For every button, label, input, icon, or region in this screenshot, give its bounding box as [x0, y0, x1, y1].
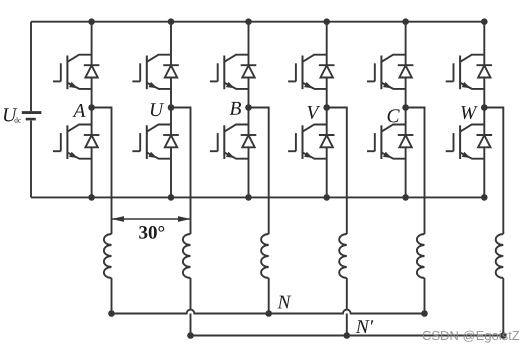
wire: leg C vertical rail [405, 22, 407, 198]
IGBT Q12: leg W lower switch [446, 125, 485, 160]
IGBT Q10: leg C lower switch [367, 125, 406, 160]
IGBT Q4: leg U lower switch [132, 125, 171, 160]
diode D5: leg B upper freewheeling [241, 65, 257, 77]
IGBT Q3: leg U upper switch [132, 55, 171, 89]
wire: phase A output tap [92, 108, 112, 235]
label Udc (DC source voltage) [4, 108, 21, 122]
wire: phase U winding to neutral [190, 278, 192, 336]
wire: negative DC bus [31, 196, 484, 198]
junction: phase A on N [108, 310, 115, 317]
label 30 degrees [139, 226, 164, 239]
diode D1: leg A upper freewheeling [84, 65, 100, 77]
junction: leg B on positive bus [245, 18, 252, 25]
diode D7: leg V upper freewheeling [319, 65, 335, 77]
junction: leg C on negative bus [402, 194, 409, 201]
wire: neutral bus N' (phases U,V,W) [191, 335, 504, 337]
junction: leg V on positive bus [323, 18, 330, 25]
diode D9: leg C upper freewheeling [398, 65, 414, 77]
IGBT Q9: leg C upper switch [367, 55, 406, 89]
dimension arrow: 30 deg phase shift [112, 216, 191, 222]
junction: leg W on positive bus [481, 18, 488, 25]
IGBT Q7: leg V upper switch [288, 55, 327, 89]
label node A [72, 104, 85, 117]
wire: left DC link, lower segment [30, 121, 32, 198]
label node V [308, 106, 321, 119]
wire: neutral bus N (phases A,B,C) with hops over U,V taps [112, 310, 425, 314]
inductor LA: phase A winding [104, 234, 112, 278]
wire: phase C output tap [406, 108, 425, 235]
junction: leg B on negative bus [245, 194, 252, 201]
junction: leg V on negative bus [323, 194, 330, 201]
diode D6: leg B lower freewheeling [241, 135, 257, 147]
label node W [461, 106, 477, 119]
node C (phase midpoint) [402, 104, 409, 111]
junction: leg U on positive bus [168, 18, 175, 25]
wire: leg B vertical rail [248, 22, 250, 198]
battery Udc positive plate [22, 111, 42, 114]
wire: leg A vertical rail [91, 22, 93, 198]
junction: leg C on positive bus [402, 18, 409, 25]
wire: phase V winding to neutral [346, 278, 348, 336]
junction: leg A on negative bus [88, 194, 95, 201]
wire: phase A winding to neutral [111, 278, 113, 314]
node V (phase midpoint) [323, 104, 330, 111]
diode D3: leg U upper freewheeling [163, 65, 179, 77]
junction: phase V on N' [344, 332, 351, 339]
inductor LC: phase C winding [417, 234, 425, 278]
node W (phase midpoint) [481, 104, 488, 111]
inductor LB: phase B winding [261, 234, 269, 278]
wire: phase V output tap [327, 108, 347, 235]
diode D12: leg W lower freewheeling [477, 135, 493, 147]
battery Udc negative plate [26, 118, 36, 121]
wire: phase W winding to neutral [502, 278, 504, 336]
wire: positive DC bus [31, 21, 484, 23]
junction: phase U on N' [187, 332, 194, 339]
IGBT Q8: leg V lower switch [288, 125, 327, 160]
IGBT Q5: leg B upper switch [210, 55, 249, 89]
watermark CSDN [423, 331, 520, 343]
junction: phase B on N [265, 310, 272, 317]
inductor LW: phase W winding [496, 234, 504, 278]
node B (phase midpoint) [245, 104, 252, 111]
IGBT Q11: leg W upper switch [446, 55, 485, 89]
label node C [388, 109, 400, 122]
label node B [230, 102, 241, 115]
IGBT Q2: leg A lower switch [53, 125, 92, 160]
inductor LU: phase U winding [183, 234, 191, 278]
diode D11: leg W upper freewheeling [477, 65, 493, 77]
junction: leg W on negative bus [481, 194, 488, 201]
diode D8: leg V lower freewheeling [319, 135, 335, 147]
wire: phase W output tap [484, 108, 503, 235]
label node N' [356, 320, 374, 333]
wire: phase B winding to neutral [268, 278, 270, 314]
diode D4: leg U lower freewheeling [163, 135, 179, 147]
wire: leg U vertical rail [170, 22, 172, 198]
IGBT Q6: leg B lower switch [210, 125, 249, 160]
junction: leg U on negative bus [168, 194, 175, 201]
junction: leg A on positive bus [88, 18, 95, 25]
label node U [151, 103, 164, 116]
label node N [277, 296, 291, 309]
wire: leg W vertical rail [483, 22, 485, 198]
junction: phase C on N [421, 310, 428, 317]
diode D10: leg C lower freewheeling [398, 135, 414, 147]
wire: phase C winding to neutral [424, 278, 426, 314]
diode D2: leg A lower freewheeling [84, 135, 100, 147]
wire: phase B output tap [249, 108, 269, 235]
wire: leg V vertical rail [326, 22, 328, 198]
IGBT Q1: leg A upper switch [53, 55, 92, 89]
junction: phase W on N' [500, 332, 507, 339]
wire: left DC link, upper segment [30, 22, 32, 112]
inductor LV: phase V winding [339, 234, 347, 278]
wire: phase U output tap [171, 108, 191, 235]
node A (phase midpoint) [88, 104, 95, 111]
node U (phase midpoint) [168, 104, 175, 111]
